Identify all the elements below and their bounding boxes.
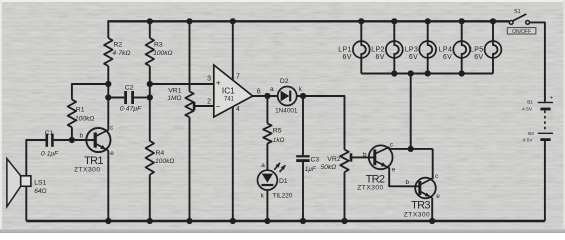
wire IC1 pin4 ground — [232, 107, 234, 221]
svg-text:R3: R3 — [154, 42, 163, 49]
transistor TR1 body — [86, 128, 110, 152]
svg-text:0·1μF: 0·1μF — [41, 151, 59, 158]
svg-text:ZTX300: ZTX300 — [74, 166, 100, 173]
wire speaker bottom — [25, 186, 27, 221]
loudspeaker LS1 — [7, 159, 21, 207]
svg-text:LP2: LP2 — [371, 47, 385, 54]
battery B1 negative plate — [540, 108, 550, 111]
wire D2 cathode — [297, 95, 303, 97]
junction collectors — [408, 146, 414, 152]
junction bottom / C3 — [300, 218, 306, 224]
TR1 emitter stroke — [96, 144, 109, 151]
svg-text:4·7kΩ: 4·7kΩ — [113, 50, 131, 57]
svg-text:LP3: LP3 — [405, 47, 419, 54]
transistor TR2 body — [369, 145, 393, 169]
wire R1 top — [72, 83, 108, 85]
wire TR1 emitter down — [107, 151, 109, 221]
TR2 collector stroke — [375, 147, 389, 154]
wire R4 bottom — [149, 175, 151, 221]
wire node k to VR2 — [303, 96, 345, 150]
lamp LP4 — [461, 21, 463, 41]
svg-text:a: a — [270, 86, 274, 93]
resistor R3 top lead — [149, 21, 151, 38]
junction lamp bus drop — [408, 70, 414, 76]
svg-text:D1: D1 — [279, 178, 288, 185]
svg-text:+: + — [216, 79, 221, 88]
junction R3 line / C2 wire — [147, 94, 153, 100]
wire VR1 top lead — [189, 21, 191, 91]
battery B1 positive plate — [538, 102, 553, 104]
resistor R2 top lead — [107, 20, 109, 38]
svg-text:k: k — [261, 192, 265, 199]
svg-text:C2: C2 — [125, 84, 134, 91]
junction top bus / LP4 — [459, 18, 465, 24]
svg-text:C3: C3 — [311, 157, 320, 164]
junction bottom / IC1 pin4 — [230, 218, 236, 224]
svg-text:B1: B1 — [527, 99, 533, 104]
wire TR1 base — [72, 139, 95, 141]
svg-text:4·5V: 4·5V — [522, 106, 533, 111]
svg-text:R1: R1 — [76, 107, 85, 114]
switch S1 left contact — [509, 21, 513, 25]
lamp LP1 — [360, 21, 362, 41]
switch S1 right contact — [526, 21, 530, 25]
wire node k to C3 — [302, 96, 304, 155]
svg-text:741: 741 — [224, 96, 235, 102]
wire TR3 emitter down — [431, 198, 433, 221]
wire VR2 bottom — [344, 172, 346, 221]
wire VR2 wiper to TR2 base — [351, 156, 375, 158]
wire IC1 pin3 input — [150, 83, 214, 85]
TR1 collector stroke — [96, 130, 109, 137]
junction top bus / LP1 — [358, 18, 364, 24]
svg-text:TR1: TR1 — [84, 155, 103, 167]
wire R5 to D1 — [266, 144, 268, 171]
svg-text:b: b — [405, 179, 409, 186]
diode D2 body — [278, 87, 297, 106]
wire IC1 pin7 supply — [232, 21, 234, 80]
svg-text:ZTX300: ZTX300 — [357, 184, 383, 191]
svg-text:100kΩ: 100kΩ — [153, 50, 172, 57]
svg-text:LP1: LP1 — [338, 47, 352, 54]
lamp LP5 — [492, 21, 494, 41]
switch S1 lever — [513, 14, 527, 21]
svg-text:+: + — [550, 96, 554, 102]
resistor R5 top lead — [266, 96, 268, 123]
svg-text:R4: R4 — [156, 150, 165, 157]
capacitor C3 — [296, 155, 309, 157]
svg-text:100kΩ: 100kΩ — [155, 158, 174, 165]
svg-text:ON/OFF: ON/OFF — [512, 29, 531, 35]
svg-text:2: 2 — [207, 98, 211, 105]
wire top supply bus — [108, 20, 509, 22]
svg-text:6V: 6V — [376, 54, 385, 61]
wire IC1 pin6 output — [253, 95, 278, 97]
svg-text:e: e — [436, 193, 440, 200]
svg-text:e: e — [110, 150, 114, 157]
label box ON/OFF — [507, 28, 536, 34]
resistor R5 — [263, 123, 271, 143]
capacitor C1 — [45, 134, 48, 147]
svg-text:TIL220: TIL220 — [273, 192, 293, 199]
junction top bus / LP2 — [391, 18, 397, 24]
junction R2 line / R1 wire — [105, 81, 111, 87]
junction node k — [300, 93, 306, 99]
svg-text:6V: 6V — [474, 54, 483, 61]
junction bottom / R4 — [147, 218, 153, 224]
wire speaker top — [26, 140, 45, 176]
lamp LP3 — [427, 21, 429, 41]
TR3 collector stroke — [420, 178, 432, 184]
junction node a — [264, 93, 270, 99]
TR1 base bar — [94, 132, 97, 147]
wire R2 bottom to TR1 collector — [107, 66, 109, 130]
svg-text:c: c — [390, 142, 394, 149]
battery B2 positive plate — [538, 132, 553, 134]
svg-text:4: 4 — [236, 106, 240, 113]
junction top bus / IC1 pin7 — [230, 18, 236, 24]
wire R1 bottom to base node — [71, 127, 73, 140]
svg-text:1μF: 1μF — [305, 166, 317, 173]
wiper bar VR1 — [193, 102, 196, 110]
junction top bus / LP5 — [490, 18, 496, 24]
svg-text:100kΩ: 100kΩ — [75, 115, 94, 122]
svg-text:e: e — [392, 167, 396, 174]
junction bottom / VR1 — [186, 218, 192, 224]
resistor R3 — [146, 38, 154, 66]
svg-text:1MΩ: 1MΩ — [167, 95, 181, 102]
lamp LP2 — [393, 21, 395, 41]
wire C3 bottom — [302, 162, 304, 221]
junction top bus / R3 — [147, 18, 153, 24]
junction top bus / VR1 — [186, 18, 192, 24]
wiper bar VR2 — [350, 153, 353, 161]
svg-text:7: 7 — [236, 73, 240, 80]
svg-text:VR2: VR2 — [327, 156, 340, 163]
wire C1 to base node — [54, 139, 72, 141]
LED D1 arrow — [262, 174, 273, 183]
junction R3 line / pin3 wire — [147, 81, 153, 87]
svg-text:TR3: TR3 — [411, 199, 430, 211]
transistor TR3 body — [415, 178, 436, 199]
junction bottom / VR2 — [341, 218, 347, 224]
junction lamp bus LP2 — [391, 70, 397, 76]
op-amp IC1 body — [214, 65, 253, 117]
wire switch to battery — [530, 22, 545, 101]
resistor R2 — [104, 38, 112, 66]
svg-text:64Ω: 64Ω — [34, 188, 46, 195]
TR3 base bar — [418, 181, 421, 195]
svg-text:3: 3 — [207, 76, 211, 83]
svg-text:ZTX300: ZTX300 — [404, 211, 430, 218]
wire VR1 wiper to pin2 — [194, 105, 214, 107]
svg-text:LP5: LP5 — [470, 47, 484, 54]
svg-text:R2: R2 — [114, 42, 123, 49]
TR2 base bar — [373, 149, 376, 165]
svg-text:0·47μF: 0·47μF — [120, 106, 142, 113]
svg-text:IC1: IC1 — [222, 87, 235, 96]
diode D2 arrow — [281, 91, 290, 102]
svg-text:6V: 6V — [343, 54, 352, 61]
wire bottom ground bus — [26, 220, 545, 223]
resistor R1 — [68, 100, 76, 128]
junction R2 line / C2 wire — [105, 94, 111, 100]
svg-text:6V: 6V — [409, 54, 418, 61]
wire C2 right — [134, 97, 150, 99]
wire VR1 bottom lead — [189, 117, 191, 221]
svg-text:1kΩ: 1kΩ — [273, 137, 285, 144]
wire TR2 emitter to TR3 base — [389, 168, 420, 187]
wire R3 bottom to R4 top — [149, 66, 151, 141]
svg-text:1N4001: 1N4001 — [275, 107, 298, 114]
wire down to TR3 collector — [432, 149, 434, 179]
svg-text:R5: R5 — [273, 127, 282, 134]
svg-text:−: − — [216, 102, 221, 111]
LED D1 body — [258, 170, 278, 190]
svg-text:b: b — [363, 151, 367, 158]
svg-text:VR1: VR1 — [168, 88, 181, 95]
svg-text:50kΩ: 50kΩ — [321, 164, 337, 171]
LED D1 emission arrows — [274, 163, 280, 170]
junction TR3 emitter / bottom bus — [429, 218, 435, 224]
battery B2 negative plate — [540, 138, 550, 141]
svg-text:B2: B2 — [528, 131, 534, 136]
junction lamp bus LP3 — [425, 70, 431, 76]
svg-text:a: a — [261, 162, 265, 169]
wire C2 left — [108, 97, 124, 99]
svg-text:6V: 6V — [443, 54, 452, 61]
wire lamp bottom bus — [361, 73, 493, 75]
junction base node — [69, 137, 75, 143]
potentiometer VR2 — [340, 150, 348, 173]
capacitor C2 — [124, 91, 127, 104]
svg-text:4·5V: 4·5V — [523, 137, 534, 142]
junction bottom / TR1 emitter — [105, 218, 111, 224]
wire lamp bus to collectors — [410, 74, 412, 149]
junction bottom / D1 — [264, 218, 270, 224]
junction lamp bus LP4 — [459, 70, 465, 76]
potentiometer VR1 — [185, 92, 193, 118]
wire D1 cathode down — [266, 190, 268, 221]
junction top bus / LP3 — [425, 18, 431, 24]
svg-text:LS1: LS1 — [34, 179, 46, 186]
wire battery to bottom bus — [544, 141, 546, 221]
svg-text:k: k — [299, 86, 303, 93]
svg-text:D2: D2 — [280, 78, 289, 85]
svg-text:c: c — [110, 124, 114, 131]
wire TR2 collector row — [389, 148, 432, 150]
wire battery link dashed — [544, 111, 546, 132]
svg-text:C1: C1 — [45, 130, 54, 137]
svg-text:S1: S1 — [514, 9, 521, 15]
resistor R1 top lead — [71, 83, 73, 99]
svg-text:c: c — [435, 173, 439, 180]
TR2 emitter stroke — [375, 161, 389, 168]
TR3 emitter stroke — [420, 191, 432, 198]
svg-text:6: 6 — [257, 88, 261, 95]
svg-text:b: b — [80, 132, 84, 139]
svg-text:LP4: LP4 — [439, 47, 453, 54]
resistor R4 — [146, 141, 154, 175]
